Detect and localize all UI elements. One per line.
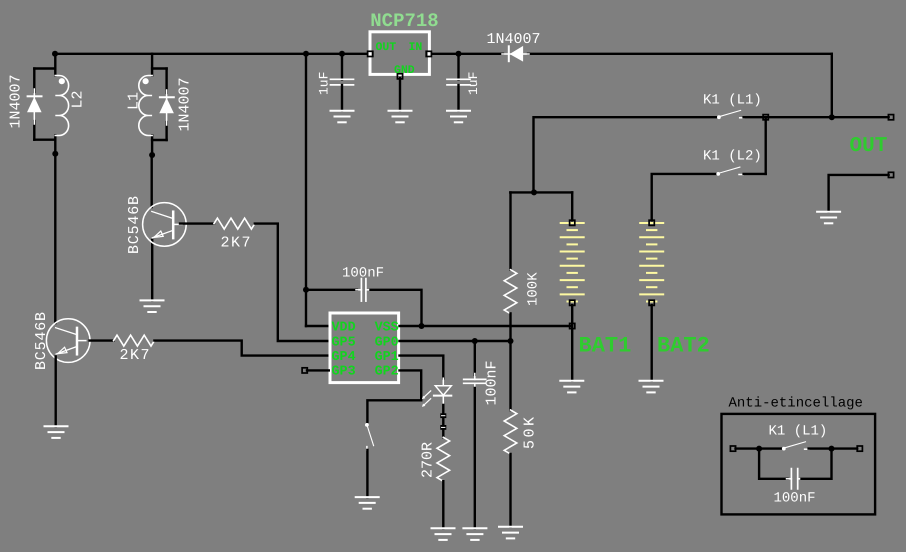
- inductor L2: [55, 76, 68, 136]
- wire L1 top lead: [151, 54, 153, 76]
- node GP0-C4 junction: [472, 338, 478, 344]
- ground OUT return: [817, 212, 840, 224]
- ground C1: [331, 111, 354, 123]
- wire left rail to Q2: [54, 154, 56, 323]
- node L2 polarity dot: [59, 78, 65, 84]
- node bus-C1 junction: [339, 51, 345, 57]
- svg-text:GP5: GP5: [332, 335, 356, 350]
- wire C3 right to VSS: [371, 290, 422, 326]
- svg-text:NCP718: NCP718: [370, 10, 438, 32]
- wire bus right drop: [831, 54, 833, 117]
- battery BAT1: [561, 223, 584, 302]
- svg-text:1N4007: 1N4007: [177, 77, 194, 131]
- svg-text:BAT1: BAT1: [579, 334, 632, 359]
- resistor R1 2K7: [214, 218, 255, 229]
- pin BAT1 plus: [570, 220, 575, 225]
- pin BAT1 minus: [570, 300, 575, 305]
- box anti-etincellage: [722, 414, 876, 515]
- wire L2 bottom lead: [54, 135, 56, 153]
- svg-text:1uF: 1uF: [466, 72, 481, 95]
- wire U2 GND lead: [399, 78, 401, 111]
- node L2 bottom junction: [52, 151, 58, 157]
- wire GP2: [367, 370, 421, 422]
- svg-text:270R: 270R: [420, 442, 437, 478]
- wire BAT1 bottom: [571, 305, 573, 381]
- wire top bus left: [55, 53, 368, 55]
- svg-text:100nF: 100nF: [484, 360, 501, 405]
- ground C4: [463, 528, 486, 540]
- pin GP3 pad: [302, 368, 307, 373]
- node anti left junction: [756, 446, 762, 452]
- switch K1 (L2): [717, 167, 744, 175]
- svg-text:2K7: 2K7: [120, 347, 152, 364]
- wire GP0: [400, 340, 511, 342]
- capacitor C4 100nF: [474, 341, 476, 375]
- wire LED to connector: [442, 405, 444, 414]
- wire Q1 base: [180, 222, 214, 224]
- node battery tee junction: [531, 189, 537, 195]
- svg-text:GND: GND: [394, 64, 415, 77]
- node VSS junction: [419, 323, 425, 329]
- capacitor C1 1uF: [341, 54, 343, 80]
- ground BAT1: [560, 381, 583, 393]
- svg-text:1uF: 1uF: [317, 72, 332, 95]
- svg-text:K1 (L1): K1 (L1): [769, 424, 828, 440]
- wire OUT return: [829, 175, 889, 212]
- wire L2 top lead: [54, 54, 56, 76]
- wire GP3 stub: [307, 369, 329, 371]
- wire VDD drop: [305, 54, 307, 326]
- node bus-VDD junction: [303, 51, 309, 57]
- wire K1 link vertical: [765, 117, 767, 174]
- ground R5: [432, 528, 455, 540]
- resistor R4 50K: [509, 341, 511, 410]
- wire K1L1 right: [744, 116, 889, 118]
- wire top bus right: [528, 53, 832, 55]
- wire VDD to chip: [306, 325, 329, 327]
- node bus-L2 junction: [52, 51, 58, 57]
- wire L1 top bracket: [152, 67, 167, 69]
- wire L2 top bracket: [34, 67, 55, 69]
- svg-text:GP3: GP3: [332, 365, 356, 380]
- svg-text:BC546B: BC546B: [33, 311, 50, 370]
- svg-text:Anti-etincellage: Anti-etincellage: [729, 396, 863, 412]
- svg-text:1N4007: 1N4007: [8, 74, 25, 128]
- wire connector gap: [442, 418, 444, 426]
- ground BAT2: [640, 381, 663, 393]
- wire Q1 emitter: [151, 240, 153, 300]
- wire top bus mid: [431, 53, 503, 55]
- node VDD junction: [303, 287, 309, 293]
- wire D1 bottom lead: [165, 122, 167, 140]
- ground U2: [389, 111, 412, 123]
- node K1L1 square junction: [763, 115, 768, 120]
- svg-text:L1: L1: [126, 92, 143, 110]
- pin U2 GND: [397, 74, 402, 79]
- pin BAT2 plus: [649, 220, 654, 225]
- svg-text:BAT2: BAT2: [657, 334, 710, 359]
- resistor R3 100K: [509, 192, 511, 269]
- pin connector P2: [440, 425, 446, 430]
- pin U2 OUT: [368, 51, 373, 56]
- ground R4: [499, 527, 522, 539]
- wire L1 bottom bracket: [152, 139, 167, 141]
- ground Q1 emitter: [141, 300, 164, 312]
- transistor Q1 BC546B: [143, 203, 187, 247]
- wire GP1: [400, 356, 444, 379]
- ground C2: [447, 111, 470, 123]
- switch S1: [365, 423, 373, 450]
- wire Q1 collector: [150, 155, 152, 207]
- node divider junction: [508, 338, 514, 344]
- node L1 bottom junction: [149, 152, 155, 158]
- pin U2 IN: [426, 51, 431, 56]
- pin OUT return terminal: [888, 172, 893, 177]
- svg-text:K1 (L2): K1 (L2): [703, 149, 762, 165]
- svg-text:L2: L2: [70, 90, 87, 108]
- microcontroller U1: [330, 313, 399, 383]
- svg-text:IN: IN: [409, 41, 423, 54]
- svg-text:GP1: GP1: [375, 350, 399, 365]
- svg-text:100nF: 100nF: [774, 491, 816, 507]
- wire connector to R5: [442, 430, 444, 438]
- wire S1 to ground: [366, 450, 368, 497]
- svg-text:1N4007: 1N4007: [487, 31, 541, 48]
- node bus-C2 junction: [456, 51, 462, 57]
- wire K1L1 left: [534, 117, 718, 192]
- wire Q2 base: [90, 339, 114, 341]
- wire K1L2 left: [652, 174, 717, 221]
- ground S1: [356, 497, 379, 509]
- wire D1 top lead: [165, 69, 167, 94]
- capacitor C2 1uF: [457, 54, 459, 80]
- inductor L1: [139, 76, 152, 136]
- wire R1 to GP5: [255, 224, 329, 341]
- transistor Q2 BC546B: [46, 319, 90, 363]
- node BAT1-VSS square junction: [570, 323, 575, 328]
- svg-text:GP2: GP2: [375, 365, 399, 380]
- svg-text:GP4: GP4: [332, 350, 356, 365]
- svg-text:BC546B: BC546B: [126, 195, 143, 254]
- node OUT junction: [829, 114, 835, 120]
- switch K1 (L1): [717, 110, 744, 118]
- wire BAT1 top lead: [571, 192, 573, 220]
- node L1 polarity dot: [143, 78, 149, 84]
- LED D4: [422, 378, 451, 407]
- regulator U2 NCP718: [370, 32, 429, 75]
- pin connector P1: [440, 413, 446, 418]
- svg-text:OUT: OUT: [850, 135, 888, 158]
- wire anti left: [736, 447, 783, 449]
- ground Q2 emitter: [45, 426, 68, 438]
- svg-text:100nF: 100nF: [342, 266, 384, 282]
- battery BAT2: [640, 223, 663, 302]
- svg-text:GP0: GP0: [375, 335, 399, 350]
- svg-text:2K7: 2K7: [221, 235, 253, 252]
- wire D2 bottom lead: [33, 121, 35, 140]
- switch K1 (L1) anti: [782, 442, 809, 450]
- svg-text:VDD: VDD: [332, 321, 356, 336]
- svg-text:50K: 50K: [522, 414, 539, 449]
- pin anti right terminal: [857, 446, 862, 451]
- wire C3 left: [306, 289, 357, 291]
- resistor R2 2K7: [114, 335, 155, 346]
- pin anti left terminal: [730, 446, 735, 451]
- wire L2 bottom bracket: [34, 138, 55, 140]
- diode D1 1N4007: [160, 90, 174, 125]
- wire L1 bottom lead: [151, 135, 153, 155]
- wire anti cap right: [802, 449, 832, 479]
- wire R2 to GP4: [154, 341, 328, 356]
- wire VSS to BAT1: [400, 325, 571, 327]
- diode D3 1N4007: [502, 46, 529, 61]
- capacitor C5 100nF: [787, 469, 803, 489]
- wire Q2 emitter: [55, 357, 57, 427]
- pin OUT terminal: [888, 115, 893, 120]
- svg-text:VSS: VSS: [375, 321, 399, 336]
- pin BAT2 minus: [649, 300, 654, 305]
- diode D2 1N4007: [28, 89, 42, 124]
- resistor R5 270R: [437, 437, 450, 481]
- wire K1L2 right: [744, 173, 766, 175]
- wire anti right: [809, 447, 858, 449]
- wire R5 to ground: [442, 481, 444, 528]
- wire battery top tee: [510, 191, 572, 193]
- svg-text:100K: 100K: [526, 272, 542, 306]
- node anti right junction: [829, 446, 835, 452]
- svg-text:OUT: OUT: [376, 41, 397, 54]
- wire D2 top lead: [33, 69, 35, 93]
- wire anti cap branch: [759, 449, 787, 479]
- svg-text:K1 (L1): K1 (L1): [703, 93, 762, 109]
- capacitor C3 100nF: [356, 279, 371, 302]
- wire BAT2 bottom: [651, 305, 653, 381]
